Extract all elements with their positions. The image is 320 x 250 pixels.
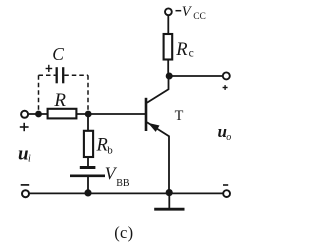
terminal input top bbox=[21, 111, 28, 118]
wire Rc to collector node bbox=[167, 60, 169, 78]
resistor Rb bbox=[84, 131, 113, 157]
junction node emitter rail dot bbox=[166, 189, 173, 196]
terminal Vcc bbox=[165, 8, 172, 15]
svg-text:R: R bbox=[53, 90, 66, 111]
capacitor C polarity plus bbox=[46, 65, 53, 72]
svg-text:C: C bbox=[52, 44, 64, 64]
svg-text:(c): (c) bbox=[114, 223, 133, 242]
label plus input bbox=[20, 123, 29, 131]
wire Rb to battery bbox=[87, 157, 89, 167]
svg-text:T: T bbox=[175, 108, 184, 124]
svg-text:o: o bbox=[226, 132, 231, 143]
wire input top segment bbox=[29, 113, 48, 115]
svg-text:R: R bbox=[96, 135, 108, 155]
svg-text:i: i bbox=[28, 154, 31, 165]
label plus output bbox=[223, 85, 228, 90]
wire dashed cap lead left vertical bbox=[38, 75, 40, 111]
resistor R bbox=[48, 90, 77, 118]
svg-text:BB: BB bbox=[116, 178, 130, 189]
wire collector output bbox=[169, 75, 222, 77]
label uo bbox=[218, 122, 232, 143]
resistor Rc bbox=[164, 34, 194, 60]
wire bottom rail bbox=[30, 192, 224, 194]
junction node VBB rail dot bbox=[84, 189, 91, 196]
label -Vcc bbox=[176, 4, 206, 22]
wire Vcc terminal to Rc bbox=[167, 15, 169, 34]
svg-text:c: c bbox=[189, 48, 194, 60]
junction node input dot bbox=[35, 111, 42, 118]
wire Rb top drop bbox=[87, 114, 89, 131]
terminal input bottom bbox=[22, 190, 29, 197]
wire dashed cap lead right vertical bbox=[87, 75, 89, 110]
transistor T bbox=[146, 74, 184, 193]
svg-text:R: R bbox=[175, 40, 187, 60]
wire base segment bbox=[76, 113, 145, 115]
label ui bbox=[18, 143, 31, 164]
svg-text:b: b bbox=[107, 145, 113, 157]
junction node collector dot bbox=[166, 73, 173, 80]
battery VBB bbox=[70, 163, 130, 188]
ground bbox=[154, 193, 184, 210]
wire battery to rail bbox=[87, 176, 89, 194]
label minus input bbox=[21, 184, 30, 186]
svg-text:u: u bbox=[18, 143, 29, 164]
wire dashed cap lead left horizontal bbox=[39, 74, 56, 76]
capacitor C bbox=[52, 44, 64, 84]
wire dashed cap lead right horizontal bbox=[64, 74, 88, 76]
terminal output top bbox=[223, 72, 230, 79]
junction node Rb top dot bbox=[85, 111, 92, 118]
label minus output bbox=[223, 184, 228, 186]
svg-text:CC: CC bbox=[193, 12, 206, 22]
terminal output bottom bbox=[223, 190, 230, 197]
